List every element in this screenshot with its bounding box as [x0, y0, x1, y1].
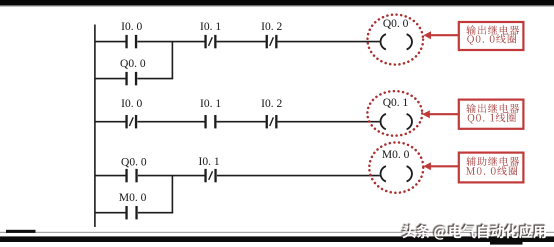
arrow to Q0.0 box	[430, 34, 458, 36]
svg-text:I0. 2: I0. 2	[261, 98, 282, 110]
contact Q0.0 (NO) branch	[125, 72, 127, 85]
svg-text:I0. 1: I0. 1	[200, 21, 221, 33]
parallel branch wire Q0.0	[95, 78, 126, 80]
annotation box M0.0: 辅助继电器 M0.0线圈	[459, 153, 524, 183]
svg-text:M0. 0: M0. 0	[119, 192, 147, 204]
annotation box Q0.0: 输出继电器 Q0.0线圈	[459, 22, 524, 50]
wire rung3	[95, 175, 126, 177]
watermark 头条@电气自动化应用	[401, 223, 544, 238]
contact I0.0 (NC) rung2	[125, 115, 127, 128]
svg-text:I0. 2: I0. 2	[261, 21, 282, 33]
bottom black block segment	[490, 236, 523, 244]
branch junction wire rung3	[171, 176, 173, 213]
svg-text:Q0. 1: Q0. 1	[383, 97, 409, 109]
svg-text:M0. 0: M0. 0	[382, 149, 410, 161]
arrow to Q0.1 box	[429, 113, 458, 115]
dotted circle Q0.1 coil	[367, 91, 422, 136]
svg-text:I0. 1: I0. 1	[200, 98, 221, 110]
contact I0.2 (NC) rung2	[266, 115, 268, 128]
annotation box Q0.1: 输出继电器 Q0.1线圈	[459, 100, 524, 129]
contact I0.1 (NO) rung2	[204, 115, 206, 128]
progress bar track	[0, 232, 554, 233]
svg-text:I0. 0: I0. 0	[121, 21, 142, 33]
parallel branch wire M0.0	[95, 212, 126, 214]
svg-text:Q0. 0: Q0. 0	[120, 58, 146, 70]
bottom black bar	[0, 236, 554, 242]
svg-text:Q0. 0: Q0. 0	[383, 18, 409, 30]
top black bar	[0, 0, 554, 5]
arrow to M0.0 box	[430, 165, 458, 167]
contact I0.1 (NC) rung3	[204, 169, 206, 182]
progress bar elapsed thumb	[6, 230, 36, 233]
dotted circle Q0.0 coil	[368, 15, 424, 65]
svg-text:I0. 0: I0. 0	[121, 98, 142, 110]
dotted circle M0.0 coil	[369, 142, 423, 192]
svg-text:I0. 1: I0. 1	[199, 156, 220, 168]
wire rung2	[95, 121, 126, 123]
coil Q0.1	[381, 114, 386, 129]
svg-text:Q0. 0: Q0. 0	[121, 156, 147, 168]
left power rail	[94, 25, 96, 228]
contact I0.2 (NC) rung1	[266, 35, 268, 48]
branch junction wire rung1	[171, 42, 173, 79]
contact I0.1 (NC) rung1	[204, 35, 206, 48]
contact Q0.0 (NO) rung3	[125, 169, 127, 182]
wire rung1	[95, 41, 126, 43]
coil M0.0	[381, 166, 386, 181]
coil Q0.0	[381, 34, 386, 49]
contact I0.0 (NO) rung1	[125, 35, 127, 48]
contact M0.0 (NO) branch	[125, 206, 127, 219]
